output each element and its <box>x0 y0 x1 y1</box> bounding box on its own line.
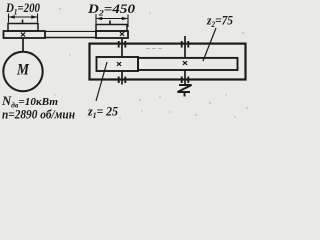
gear z2 x-mark <box>183 61 187 65</box>
svg-text:z1= 25: z1= 25 <box>87 104 118 121</box>
leader z1 <box>96 62 107 101</box>
dimension D2 <box>96 14 128 27</box>
svg-text:M: M <box>16 62 29 79</box>
scan noise specks <box>54 8 247 118</box>
pulley D1 bar <box>4 31 46 38</box>
motor shaft <box>22 38 24 52</box>
motor M <box>3 52 42 91</box>
input shaft bottom bearing <box>119 77 126 84</box>
output shaft bottom bearing <box>182 77 189 84</box>
output shaft top bearing <box>182 41 189 48</box>
shaft break symbol <box>178 85 192 97</box>
output shaft lower <box>184 70 186 85</box>
gearbox housing <box>90 44 246 80</box>
dimension D1 <box>9 14 38 23</box>
svg-text:D1=200: D1=200 <box>5 0 40 17</box>
belt <box>45 31 96 37</box>
scan smudge <box>146 48 164 50</box>
gear z2 <box>138 58 238 70</box>
pulley D1 shaft tick <box>22 20 24 25</box>
gear z1 <box>97 57 139 71</box>
input shaft lower <box>121 71 123 85</box>
leader z2 <box>203 28 216 61</box>
input shaft upper <box>121 38 123 57</box>
pulley D2 <box>96 25 127 32</box>
pulley D2 x-mark <box>120 32 124 36</box>
pulley D2 bar <box>96 31 128 38</box>
svg-text:z2=75: z2=75 <box>206 13 233 30</box>
output shaft upper <box>184 36 186 58</box>
pulley D1 <box>8 24 38 32</box>
svg-text:n=2890 об/мин: n=2890 об/мин <box>2 108 75 122</box>
pulley D2 shaft tick <box>109 21 111 26</box>
gear z1 x-mark <box>117 62 121 66</box>
input shaft top bearing <box>119 41 126 48</box>
pulley D1 x-mark <box>21 33 25 37</box>
